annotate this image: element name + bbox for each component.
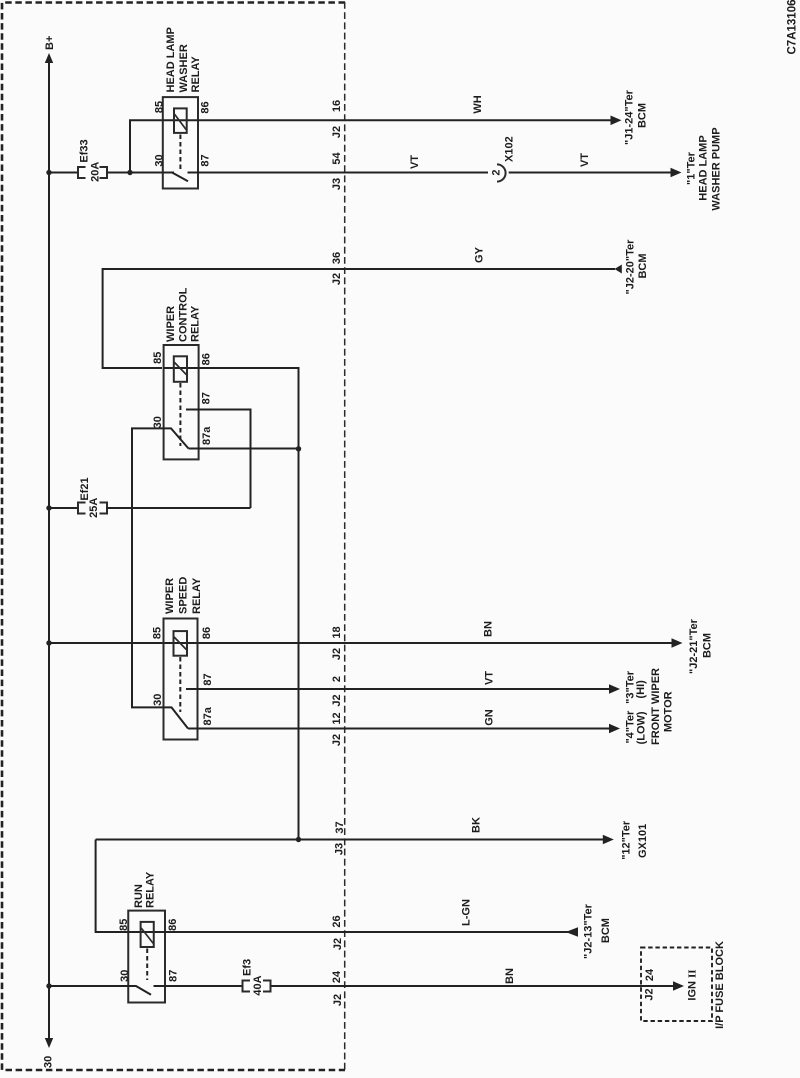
wire VT X102 to pump [509, 172, 672, 174]
arrow to wiper motor 3 [609, 684, 620, 694]
svg-text:37: 37 [334, 821, 346, 833]
svg-text:87a: 87a [201, 426, 213, 445]
junction dot bus/U3 coil [46, 640, 51, 645]
svg-text:J2: J2 [331, 734, 343, 746]
svg-text:16: 16 [331, 100, 343, 112]
wire WH relay U1 pin86 to BCM [198, 119, 612, 121]
svg-text:GN: GN [484, 709, 496, 726]
svg-text:GY: GY [474, 246, 486, 263]
junction dot ground net [296, 837, 301, 842]
svg-text:85: 85 [153, 101, 165, 113]
wire fuse Ef33 to relay pin 30 [107, 172, 175, 174]
wire relay U4 pin87 to fuse Ef3 [165, 985, 243, 987]
svg-text:30: 30 [43, 1056, 55, 1068]
svg-text:Ef21: Ef21 [79, 477, 91, 500]
svg-text:86: 86 [167, 919, 179, 931]
relay U2 pin 87 stub [186, 409, 199, 411]
svg-text:30: 30 [153, 154, 165, 166]
B+ bus arrow (up) [45, 53, 53, 63]
wire ground net down to relay U4 pin 85 [96, 840, 129, 933]
svg-text:X102: X102 [504, 136, 516, 162]
wire VT relay U1 pin87 to X102 [198, 172, 488, 174]
wire bus to relay U4 pin 30 [49, 985, 128, 987]
relay U2 body [164, 345, 199, 459]
svg-text:J2: J2 [332, 994, 344, 1006]
wire BN fuse Ef3 to I/P fuse block [271, 985, 675, 987]
svg-text:J2: J2 [644, 988, 656, 1000]
relay U2 coil [174, 356, 187, 382]
relay U1 coil [174, 108, 187, 132]
svg-text:WASHER: WASHER [178, 44, 190, 92]
svg-text:BK: BK [471, 817, 483, 833]
svg-text:GX101: GX101 [637, 824, 649, 858]
relay U3 WIPER SPEED RELAY [152, 577, 215, 740]
svg-text:85: 85 [118, 919, 130, 931]
svg-text:2: 2 [331, 676, 343, 682]
svg-text:12: 12 [331, 712, 343, 724]
svg-text:MOTOR: MOTOR [663, 691, 675, 732]
svg-text:30: 30 [119, 970, 131, 982]
svg-text:18: 18 [331, 626, 343, 638]
wire Ef21 feed from bus [49, 507, 79, 509]
svg-text:20A: 20A [89, 162, 101, 182]
wire B+ bus (vertical main feed) [48, 62, 50, 1039]
svg-text:VT: VT [484, 671, 496, 685]
junction dot 87a/ground net [296, 446, 301, 451]
svg-text:85: 85 [152, 352, 164, 364]
relay U4 RUN RELAY [118, 871, 180, 1002]
svg-text:54: 54 [331, 152, 343, 165]
svg-text:FRONT WIPER: FRONT WIPER [650, 668, 662, 745]
wire L-GN relay U4 pin86 to BCM J2-13 [165, 931, 578, 933]
relay U3 armature axis (dashed) [179, 657, 181, 712]
svg-text:C7A13106: C7A13106 [787, 0, 799, 54]
svg-text:RELAY: RELAY [191, 577, 203, 614]
wire GY BCM J2-20 to relay U2 pin 85 [103, 269, 615, 368]
svg-text:J3: J3 [334, 843, 346, 855]
relay U4 body [128, 911, 165, 1003]
relay U1 switch arm 30-87 [163, 173, 188, 182]
relay U2 coil wire through [164, 367, 199, 369]
wire relay U2 pin87a to ground net [189, 448, 299, 450]
svg-text:L-GN: L-GN [461, 899, 473, 926]
svg-text:"J1-24"Ter: "J1-24"Ter [624, 89, 636, 145]
relay U4 switch arm 30-87 [128, 986, 151, 995]
svg-text:"J2-20"Ter: "J2-20"Ter [625, 239, 637, 295]
junction dot bus/U4 [46, 983, 51, 988]
wire relay U2 pin30 to relay U3 pin30 [132, 428, 164, 707]
svg-text:HEAD LAMP: HEAD LAMP [698, 135, 710, 200]
arrow to head lamp washer pump [671, 168, 682, 178]
svg-text:"J2-13"Ter: "J2-13"Ter [583, 903, 595, 959]
svg-text:36: 36 [331, 252, 343, 264]
relay U3 body [164, 619, 198, 740]
svg-text:B+: B+ [44, 36, 56, 50]
relay U4 armature axis (dashed) [146, 949, 148, 981]
I/P FUSE BLOCK dashed box [641, 948, 712, 1022]
arrow into I/P fuse block [673, 981, 684, 991]
arrow to BCM J1-24 [611, 116, 622, 126]
wire relay U2 pin87 to fuse Ef21 [186, 410, 251, 509]
wire fuse Ef21 to relay U2 pin 87 [107, 507, 251, 509]
svg-text:J2: J2 [331, 648, 343, 660]
relay U1 body [163, 97, 198, 188]
svg-text:Ef33: Ef33 [78, 139, 90, 162]
svg-text:HEAD LAMP: HEAD LAMP [165, 27, 177, 92]
svg-text:J2: J2 [331, 273, 343, 285]
svg-text:BCM: BCM [600, 918, 612, 943]
wire Ef33 feed from bus [49, 172, 79, 174]
arrow from BCM J2-13 (points left) [566, 927, 578, 937]
svg-text:RELAY: RELAY [190, 305, 202, 342]
svg-text:J2: J2 [331, 126, 343, 138]
relay U2 WIPER CONTROL RELAY [152, 287, 213, 459]
svg-text:86: 86 [200, 101, 212, 113]
svg-text:RELAY: RELAY [145, 871, 157, 908]
junction dot bus/Ef33 [46, 170, 51, 175]
relay U3 switch arm 30-87a [164, 707, 189, 728]
relay U1 HEAD LAMP WASHER RELAY [153, 27, 211, 188]
wire BK ground net to GX101 [96, 839, 605, 841]
svg-text:86: 86 [201, 353, 213, 365]
svg-text:J2: J2 [331, 694, 343, 706]
svg-text:VT: VT [409, 155, 421, 169]
svg-text:RUN: RUN [133, 884, 145, 908]
wire VT relay U3 pin87 to wiper motor HI [186, 688, 611, 690]
svg-text:RELAY: RELAY [190, 56, 202, 93]
svg-text:25A: 25A [88, 498, 100, 518]
svg-text:30: 30 [152, 694, 164, 706]
connector X102 symbol [497, 164, 506, 181]
svg-text:I/P FUSE BLOCK: I/P FUSE BLOCK [714, 941, 726, 1029]
relay U3 coil [174, 631, 188, 656]
relay U1 armature axis (dashed) [179, 135, 181, 171]
svg-text:WASHER PUMP: WASHER PUMP [711, 127, 723, 210]
svg-text:WIPER: WIPER [164, 578, 176, 614]
wire relay U2 pin86 down to ground net [199, 368, 299, 840]
svg-text:BCM: BCM [702, 633, 714, 658]
svg-text:87: 87 [200, 154, 212, 166]
svg-text:CONTROL: CONTROL [178, 287, 190, 342]
svg-text:40A: 40A [252, 975, 264, 995]
fuse Ef33 brackets [78, 167, 107, 178]
wire branch to relay pin 85 [130, 120, 163, 172]
svg-text:J3: J3 [331, 178, 343, 190]
svg-text:(LOW): (LOW) [636, 711, 648, 744]
bus arrow (down) to terminal 30 [45, 1038, 53, 1048]
relay U4 coil [141, 922, 154, 947]
svg-text:WIPER: WIPER [165, 306, 177, 342]
svg-text:30: 30 [152, 416, 164, 428]
svg-text:BN: BN [483, 621, 495, 637]
connector boundary dashed line (right edge, J2/J3 bulkhead) [344, 2, 346, 1070]
junction dot 85-branch [127, 170, 132, 175]
svg-text:24: 24 [331, 970, 343, 983]
svg-text:IGN II: IGN II [686, 969, 698, 1000]
svg-text:"J2-21"Ter: "J2-21"Ter [688, 618, 700, 674]
arrow to BCM J2-21 [672, 638, 683, 648]
arrow from BCM J2-20 (points left) [615, 265, 622, 274]
dashed harness boundary box (top/left/bottom edges) [2, 3, 345, 1071]
svg-text:24: 24 [644, 968, 656, 981]
svg-text:87: 87 [168, 970, 180, 982]
svg-text:26: 26 [331, 915, 343, 927]
svg-text:BCM: BCM [637, 103, 649, 128]
arrow to ground GX101 [603, 835, 614, 845]
svg-text:87: 87 [201, 392, 213, 404]
fuse Ef3 brackets [243, 981, 271, 992]
svg-text:85: 85 [152, 627, 164, 639]
svg-text:BN: BN [504, 968, 516, 984]
svg-text:87a: 87a [202, 706, 214, 725]
svg-text:VT: VT [579, 153, 591, 167]
svg-text:"12"Ter: "12"Ter [620, 820, 632, 860]
relay U1 coil wire through [163, 119, 198, 121]
svg-text:(HI): (HI) [635, 680, 647, 699]
svg-text:86: 86 [201, 627, 213, 639]
fuse Ef21 brackets [78, 503, 107, 514]
wire BN bus through relay U3 coil to BCM J2-21 [49, 642, 673, 644]
arrow to wiper motor 4 [609, 724, 620, 734]
svg-text:Ef3: Ef3 [242, 959, 254, 976]
svg-text:WH: WH [472, 95, 484, 113]
svg-text:"4"Ter: "4"Ter [624, 710, 636, 744]
relay U2 armature axis (dashed) [179, 383, 181, 446]
svg-text:SPEED: SPEED [178, 577, 190, 614]
relay U2 switch arm 30-87a [164, 428, 189, 448]
junction dot bus/Ef21 [46, 505, 51, 510]
wire GN relay U3 pin87a to wiper motor LOW [188, 728, 611, 730]
svg-text:87: 87 [202, 673, 214, 685]
relay U4 coil wire through [128, 931, 165, 933]
svg-text:2: 2 [491, 169, 503, 175]
svg-text:"1"Ter: "1"Ter [686, 151, 698, 185]
svg-text:BCM: BCM [637, 253, 649, 278]
svg-text:J2: J2 [332, 938, 344, 950]
relay U3 pin 87 stub [186, 688, 198, 690]
